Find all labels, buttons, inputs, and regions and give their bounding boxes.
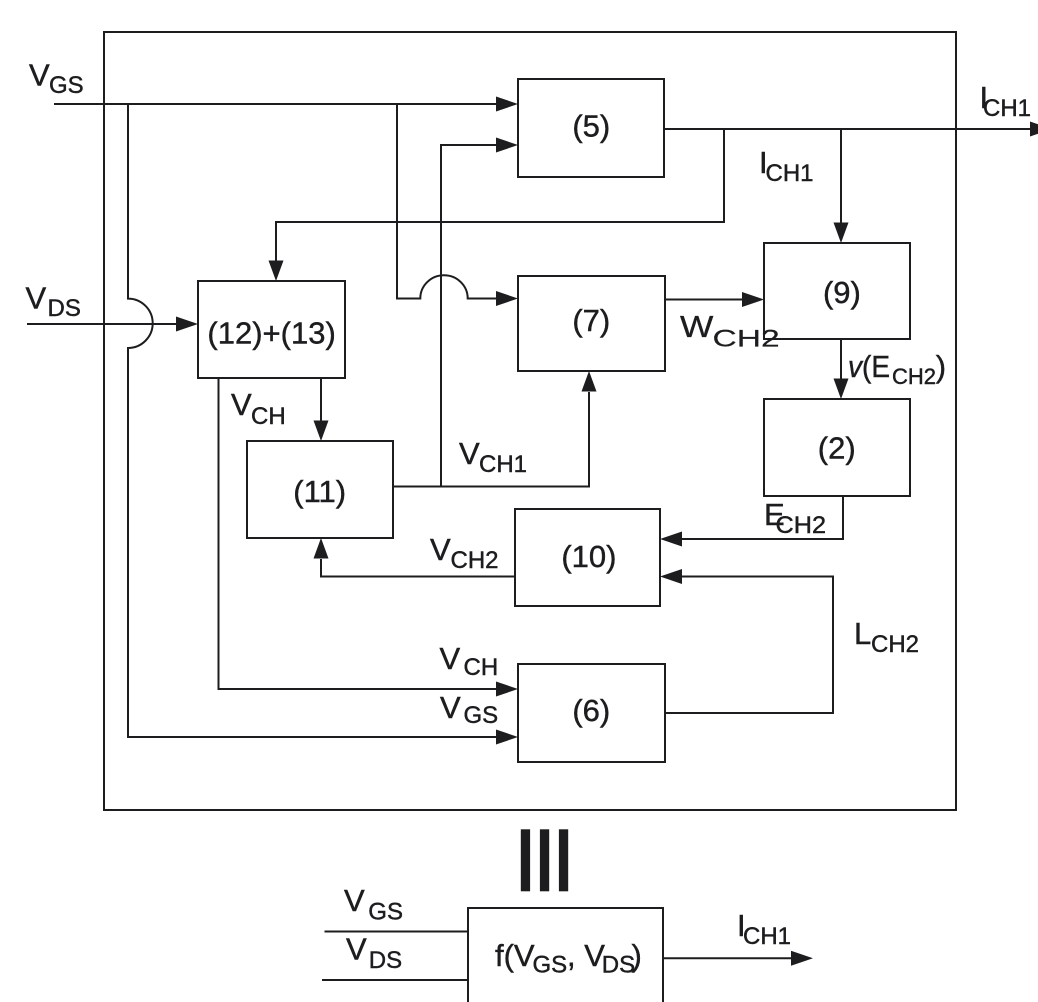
- arrowhead into (11) top: [314, 421, 329, 442]
- svg-text:V: V: [440, 641, 461, 676]
- outer system box: [104, 32, 956, 810]
- block f(VGS,VDS): [468, 908, 663, 1002]
- svg-text:V: V: [430, 532, 451, 567]
- svg-text:DS: DS: [369, 947, 402, 974]
- wire ICH1 bottom output: [663, 957, 792, 959]
- arrowhead VGS into (5): [496, 97, 518, 112]
- svg-text:GS: GS: [533, 952, 568, 979]
- svg-text:GS: GS: [464, 702, 499, 729]
- wire VCH2 from (10) to (11): [321, 559, 515, 577]
- arrowhead LCH2 into (10): [660, 569, 682, 584]
- arrowhead WCH2 into (9): [742, 292, 764, 307]
- svg-text:GS: GS: [368, 899, 403, 926]
- svg-text:W: W: [680, 310, 714, 345]
- svg-text:CH1: CH1: [743, 923, 791, 950]
- block (6): [518, 664, 665, 762]
- wire ICH1 output from (5): [664, 128, 1034, 130]
- wire ICH1 branch down into (9): [840, 129, 842, 224]
- arrowhead VCH1 into (7) bottom: [582, 371, 597, 392]
- svg-text:(7): (7): [572, 303, 610, 338]
- arrowhead VDS into (12)+(13): [176, 317, 198, 332]
- svg-text:V: V: [26, 281, 47, 316]
- svg-text:V: V: [344, 883, 365, 918]
- arrowhead into (12)+(13) top: [269, 261, 284, 282]
- arrowhead ICH1 right edge: [1030, 122, 1038, 137]
- wire from (12)+(13) down to (11): [320, 378, 322, 422]
- wire VGS main into (5): [54, 103, 498, 105]
- arrowhead VCH2 into (11) bottom: [314, 538, 329, 559]
- arrowhead into (2) top: [834, 379, 849, 400]
- wire LCH2 from (6) to (10): [665, 577, 833, 714]
- svg-text:CH2: CH2: [871, 631, 919, 658]
- block (12)+(13): [198, 281, 345, 378]
- block (2): [764, 399, 910, 496]
- block (5): [518, 79, 664, 177]
- svg-text:f(V: f(V: [495, 938, 535, 973]
- svg-text:V: V: [29, 58, 50, 93]
- svg-text:V: V: [459, 436, 480, 471]
- wire WCH2 from (7) to (9): [665, 299, 744, 301]
- svg-text:CH2: CH2: [892, 364, 936, 389]
- arrowhead VGS into (6): [496, 730, 518, 745]
- svg-text:CH2: CH2: [776, 512, 827, 539]
- arrowhead ECH2 into (10): [660, 532, 682, 547]
- svg-text:(2): (2): [818, 431, 856, 466]
- block (9): [764, 243, 910, 339]
- svg-text:(5): (5): [572, 109, 610, 144]
- arrowhead into (9) top: [834, 223, 849, 244]
- svg-text:DS: DS: [48, 295, 81, 322]
- wire VDS bottom box: [322, 979, 468, 981]
- wire VCH1 up into (5): [441, 145, 498, 487]
- svg-text:(10): (10): [561, 539, 616, 574]
- svg-text:, V: , V: [567, 938, 605, 973]
- svg-text:CH2: CH2: [713, 326, 780, 352]
- wire VCH1 from (11) to (7): [393, 392, 589, 487]
- svg-text:(6): (6): [572, 693, 610, 728]
- wire VDS into (12)+(13): [27, 323, 178, 325]
- block (11): [247, 441, 393, 538]
- block (10): [515, 509, 660, 606]
- svg-text:(9): (9): [823, 275, 861, 310]
- svg-text:V: V: [231, 387, 252, 422]
- arrowhead VGS into (7): [496, 291, 518, 306]
- arrowhead VCH into (6): [496, 682, 518, 697]
- arrowhead ICH1 bottom: [791, 951, 813, 966]
- svg-text:CH1: CH1: [766, 160, 814, 187]
- svg-text:GS: GS: [49, 72, 84, 99]
- wire ECH2 from (2) to (10): [681, 496, 843, 539]
- equivalence triple bars: [521, 829, 530, 891]
- svg-text:CH2: CH2: [451, 547, 499, 574]
- svg-text:V: V: [346, 932, 367, 967]
- svg-text:): ): [936, 349, 946, 384]
- wire VGS branch into (7) with hop over VCH1 vertical: [397, 104, 498, 299]
- wire VGS bottom box: [325, 931, 469, 933]
- svg-text:CH: CH: [464, 654, 499, 681]
- svg-text:V: V: [440, 690, 461, 725]
- svg-text:): ): [632, 938, 642, 973]
- wire ICH1 feedback down-left into (12)+(13): [276, 129, 724, 262]
- wire VGS branch down to (6) with hop over VDS: [128, 104, 498, 737]
- svg-text:CH: CH: [251, 403, 286, 430]
- svg-text:DS: DS: [602, 952, 635, 979]
- svg-text:(12)+(13): (12)+(13): [207, 316, 335, 351]
- svg-text:CH1: CH1: [983, 95, 1031, 122]
- svg-text:v(E: v(E: [848, 349, 890, 384]
- wire from (9) to (2): [840, 339, 842, 380]
- svg-text:CH1: CH1: [479, 451, 527, 478]
- svg-text:L: L: [854, 616, 871, 651]
- block (7): [518, 276, 665, 371]
- svg-text:(11): (11): [293, 474, 346, 509]
- wire VCH from (12)+(13) to (6): [219, 378, 499, 689]
- arrowhead VCH1 into (5): [496, 138, 518, 153]
